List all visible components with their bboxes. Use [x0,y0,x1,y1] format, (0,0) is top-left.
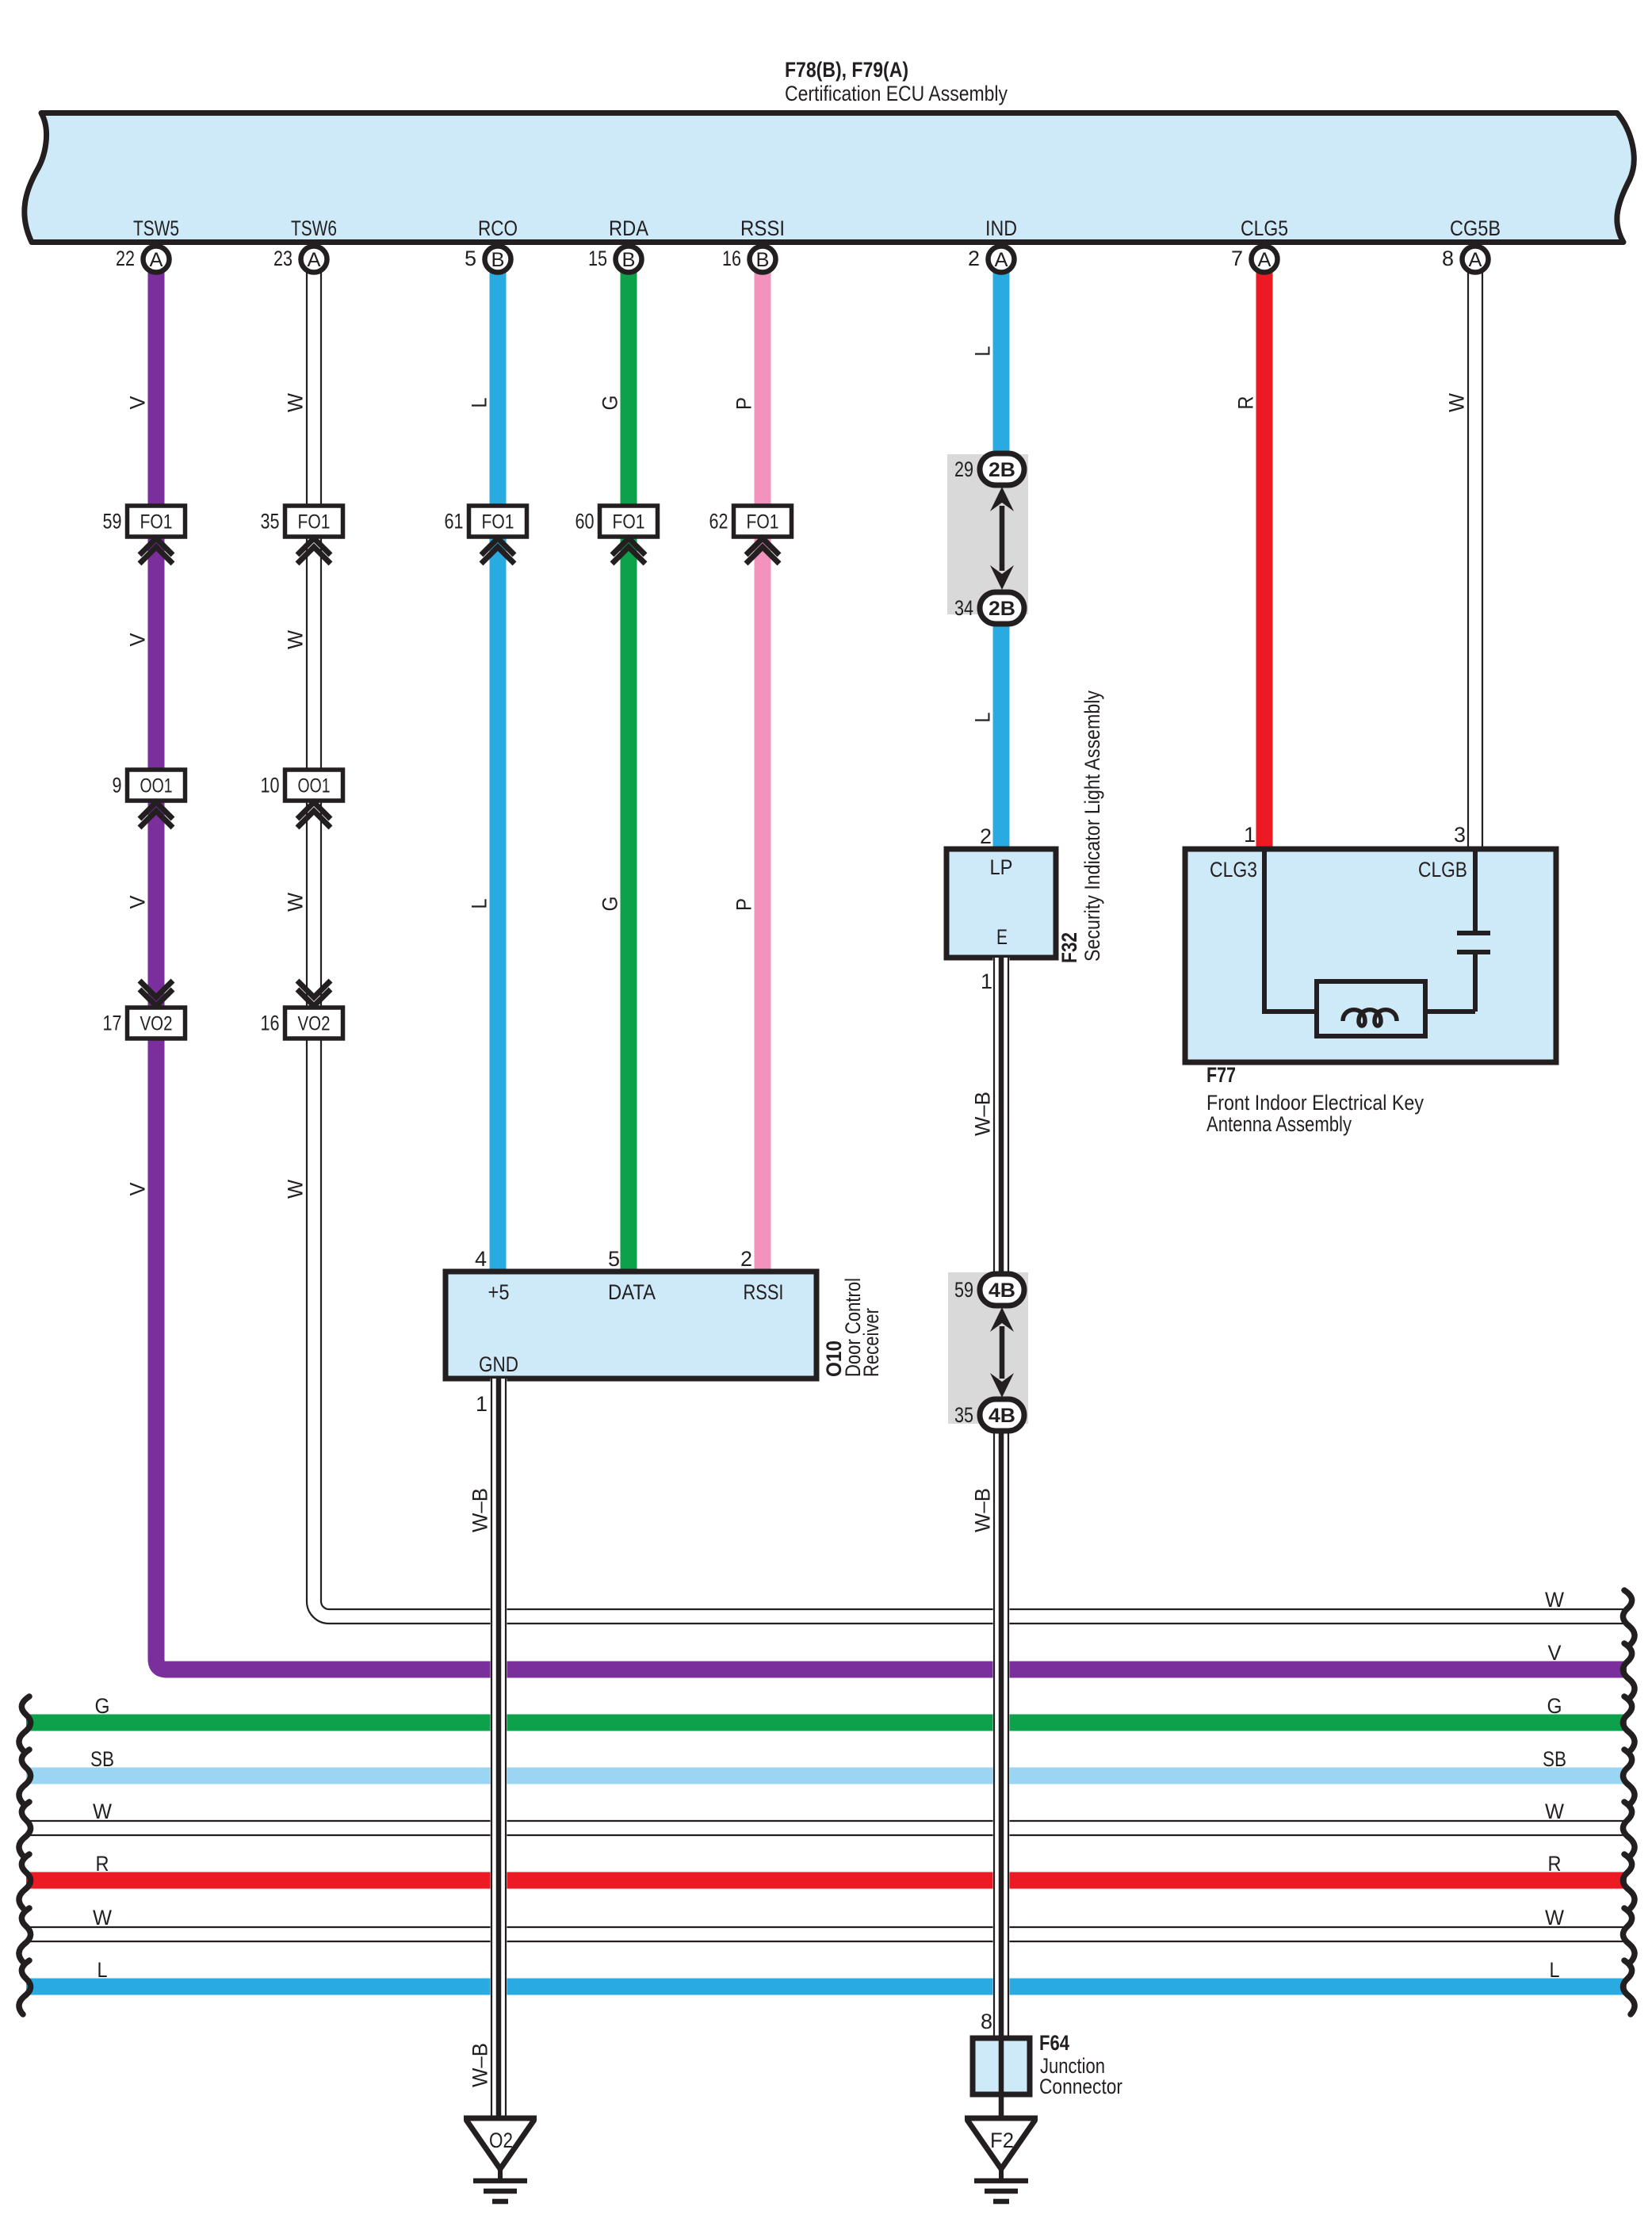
svg-text:FO1: FO1 [747,511,779,534]
svg-text:L: L [468,899,491,909]
svg-text:15: 15 [588,247,607,270]
svg-text:FO1: FO1 [140,511,173,534]
svg-text:IND: IND [985,216,1017,240]
svg-text:L: L [468,398,491,408]
svg-text:7: 7 [1231,247,1243,270]
svg-text:Security Indicator Light Assem: Security Indicator Light Assembly [1080,690,1104,962]
svg-text:F77: F77 [1206,1063,1236,1087]
svg-text:59: 59 [103,510,122,534]
svg-text:V: V [126,633,150,647]
svg-text:W: W [284,393,308,412]
svg-text:62: 62 [709,510,728,534]
svg-text:29: 29 [954,457,973,481]
svg-text:W–B: W–B [971,1092,995,1136]
svg-text:R: R [1548,1852,1562,1876]
svg-text:1: 1 [476,1392,488,1416]
svg-text:8: 8 [981,2010,992,2033]
svg-text:L: L [98,1958,108,1982]
svg-text:34: 34 [954,596,973,620]
svg-text:2: 2 [980,824,992,848]
svg-text:VO2: VO2 [298,1013,331,1035]
svg-text:A: A [1258,249,1272,271]
svg-text:V: V [126,1183,150,1196]
svg-text:W: W [284,630,308,649]
svg-text:GND: GND [479,1352,518,1376]
svg-text:A: A [308,249,321,271]
svg-text:16: 16 [261,1012,280,1035]
svg-text:L: L [971,346,995,357]
svg-text:10: 10 [261,774,280,797]
svg-text:2B: 2B [989,598,1015,620]
svg-text:G: G [95,1694,110,1718]
svg-text:2: 2 [968,247,980,270]
svg-text:A: A [995,249,1008,271]
svg-text:W: W [284,1180,308,1199]
svg-text:17: 17 [103,1012,122,1035]
svg-text:CG5B: CG5B [1450,216,1501,240]
svg-text:OO1: OO1 [140,775,173,797]
svg-text:2: 2 [740,1247,752,1271]
svg-text:FO1: FO1 [298,511,331,534]
svg-text:F2: F2 [990,2128,1014,2152]
svg-text:FO1: FO1 [482,511,514,534]
svg-text:61: 61 [445,510,464,534]
svg-text:TSW6: TSW6 [291,216,337,240]
svg-text:W–B: W–B [468,2043,492,2087]
svg-text:W: W [284,893,308,912]
svg-text:FO1: FO1 [613,511,645,534]
svg-text:W: W [1545,1588,1564,1612]
svg-text:SB: SB [90,1747,114,1771]
svg-text:16: 16 [722,247,741,270]
svg-text:60: 60 [576,510,595,534]
svg-text:CLG5: CLG5 [1241,216,1288,240]
svg-text:E: E [996,925,1008,949]
svg-text:TSW5: TSW5 [133,216,179,240]
svg-text:B: B [756,249,770,271]
svg-text:OO1: OO1 [298,775,331,797]
svg-text:G: G [598,396,622,411]
svg-text:LP: LP [990,855,1013,879]
svg-text:5: 5 [608,1247,620,1271]
svg-text:Receiver: Receiver [859,1308,883,1377]
svg-text:F78(B), F79(A): F78(B), F79(A) [785,58,908,82]
svg-text:W: W [1445,393,1469,412]
svg-text:A: A [150,249,163,271]
svg-text:RSSI: RSSI [740,216,785,240]
svg-text:VO2: VO2 [140,1013,173,1035]
svg-text:V: V [126,896,150,909]
svg-text:W: W [1545,1800,1564,1823]
svg-text:4: 4 [475,1247,487,1271]
svg-text:L: L [971,713,995,723]
svg-text:CLGB: CLGB [1418,858,1467,882]
svg-text:A: A [1469,249,1482,271]
svg-text:RSSI: RSSI [744,1280,784,1304]
svg-text:R: R [96,1852,109,1876]
svg-text:W: W [93,1906,112,1930]
svg-text:V: V [1548,1641,1562,1665]
svg-text:P: P [732,898,756,911]
svg-text:G: G [598,897,622,912]
svg-text:35: 35 [261,510,280,534]
svg-text:W: W [93,1800,112,1823]
svg-text:Front Indoor Electrical Key: Front Indoor Electrical Key [1206,1091,1424,1115]
svg-text:2B: 2B [989,459,1015,481]
svg-text:B: B [491,249,505,271]
svg-text:8: 8 [1442,247,1454,270]
svg-text:Certification ECU Assembly: Certification ECU Assembly [785,82,1008,105]
svg-text:SB: SB [1543,1747,1566,1771]
svg-text:RCO: RCO [478,216,518,240]
svg-text:RDA: RDA [609,216,648,240]
svg-text:CLG3: CLG3 [1210,858,1257,882]
svg-text:4B: 4B [989,1405,1015,1427]
svg-text:F64: F64 [1039,2031,1069,2055]
svg-text:V: V [126,396,150,410]
svg-text:G: G [1547,1694,1562,1718]
svg-text:1: 1 [981,970,992,993]
svg-text:B: B [622,249,636,271]
svg-text:9: 9 [113,774,122,797]
svg-text:W: W [1545,1906,1564,1930]
svg-text:W–B: W–B [468,1488,492,1532]
svg-text:+5: +5 [488,1280,510,1304]
svg-text:59: 59 [954,1278,973,1302]
svg-text:1: 1 [1244,823,1256,847]
svg-text:Connector: Connector [1039,2075,1122,2098]
svg-text:P: P [732,397,756,410]
svg-text:4B: 4B [989,1279,1015,1302]
svg-text:3: 3 [1454,823,1466,847]
svg-text:23: 23 [273,247,293,270]
svg-text:O2: O2 [489,2128,513,2152]
svg-text:22: 22 [116,247,135,270]
svg-text:R: R [1234,396,1258,410]
svg-text:W–B: W–B [971,1488,995,1532]
svg-text:Antenna Assembly: Antenna Assembly [1206,1112,1352,1136]
svg-text:L: L [1550,1958,1560,1982]
svg-text:DATA: DATA [608,1280,656,1304]
svg-text:5: 5 [465,247,476,270]
svg-text:F32: F32 [1057,932,1081,963]
svg-text:35: 35 [954,1403,973,1427]
